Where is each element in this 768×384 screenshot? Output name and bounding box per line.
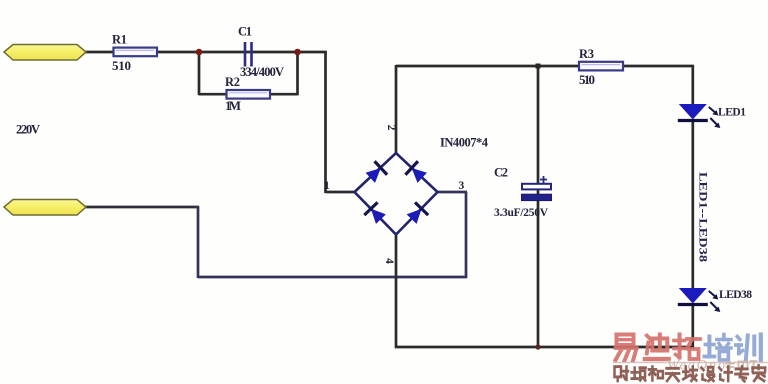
svg-text:510: 510 [112,58,131,73]
wire: terminal1 to R1 [84,51,114,54]
wire: LED column drop from rail [691,65,694,105]
wire: LED38 cathode to bottom rail [691,303,694,348]
wire: node B to top-right corner [297,51,327,54]
wire: lower-left vertical drop [197,206,200,278]
wire: R1 to node A [156,51,200,54]
capacitor C1 plates [245,42,252,67]
resistor R3 body [579,62,623,71]
watermark small char Jia [753,365,766,380]
bridge rectifier diamond frame [355,153,438,235]
svg-text:R3: R3 [579,47,594,61]
svg-text:4: 4 [383,258,395,264]
watermark slogan row [615,365,766,381]
watermark char Yi [616,335,637,361]
svg-text:1M: 1M [225,98,241,113]
wire: R2 row up to node B [296,52,299,95]
svg-text:510: 510 [579,72,595,87]
svg-text:R1: R1 [112,33,127,47]
wire: into bridge pin 1 [326,191,356,194]
capacitor C2 (polarized) [522,176,552,201]
wire: bridge pin 2 up to DC rail [395,65,398,154]
watermark WegOoo weiku [667,358,757,374]
node B junction dot [294,49,301,56]
watermark small char She [615,367,629,381]
wire: vertical drop to bridge pin 1 [324,51,327,193]
resistor R2 body [227,90,271,99]
watermark underline [613,362,768,364]
watermark small char Tian [666,368,679,381]
svg-text:334/400V: 334/400V [240,65,284,79]
LED38 symbol [678,288,721,312]
watermark small char She2 [702,367,715,381]
wire: DC+ top rail [396,65,694,68]
svg-text:3: 3 [459,180,465,192]
watermark small char He [649,367,663,381]
svg-text:LED1: LED1 [718,107,746,119]
port terminal P1 (220V live) [4,45,86,61]
wire: LED1 cathode to LED38 anode [691,120,694,289]
watermark char Xun [736,335,761,361]
wire: bottom return rail [395,346,694,349]
svg-text:C2: C2 [494,166,508,180]
watermark char Di [645,335,669,360]
resistor R1 body [114,48,158,57]
watermark char Tuo [674,335,700,360]
watermark small char Xian [683,367,697,381]
watermark small char Pin [632,368,646,381]
port terminal P2 (220V neutral) [4,200,86,216]
bridge diode D3 (pin4 to pin1) [364,202,387,225]
wire: lower horizontal to bridge pin 3 branch [198,276,467,279]
wire: node A through C1 to node B [198,51,299,54]
watermark big text block [616,335,761,361]
watermark small char Zhuan [735,367,748,382]
bridge diode D1 (pin1 to pin2) [364,161,387,184]
svg-text:R2: R2 [225,75,240,89]
wire: terminal2 to lower corner [84,206,199,209]
wire: node A down to R2 row [198,52,201,95]
wire: C2 branch vertical [537,66,540,348]
svg-text:2: 2 [385,125,397,131]
LED1 symbol [678,104,721,128]
svg-text:220V: 220V [16,123,40,137]
node: C2 top junction [536,64,541,69]
svg-text:IN4007*4: IN4007*4 [440,136,489,150]
watermark small char Ji [719,367,732,381]
svg-text:LED38: LED38 [719,289,752,301]
node A junction dot [196,49,203,56]
watermark char Pei [704,335,731,361]
svg-text:3.3uF/250V: 3.3uF/250V [494,207,549,219]
wire: bridge pin 3 lead [437,191,467,194]
wire: R2 right lead [269,93,298,96]
svg-text:1: 1 [324,180,330,192]
svg-text:LED1--LED38: LED1--LED38 [697,172,711,262]
bridge diode D4 (pin4 to pin3) [405,202,428,225]
node: C2 bottom junction [535,344,540,349]
wire: bridge pin 4 down to bottom rail [395,234,398,348]
svg-text:C1: C1 [238,25,252,39]
wire: R2 left lead [199,93,227,96]
bridge diode D2 (pin3 to pin2) [405,161,428,184]
wire: riser to bridge pin 3 [465,192,468,278]
